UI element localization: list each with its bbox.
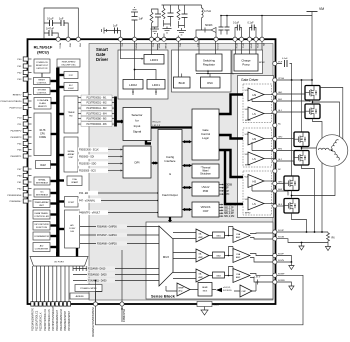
gate driver phase box 3 <box>243 171 272 215</box>
svg-text:BPH2: BPH2 <box>245 213 251 215</box>
wire VM pin stub <box>261 16 263 40</box>
pin (left) <box>23 193 28 197</box>
block A/D converter 12bit <box>65 210 80 248</box>
wire pin PGND stub <box>163 34 165 40</box>
block MCU peripheral KEY RETURN <box>33 222 50 231</box>
RC filter cluster 1 <box>164 5 171 29</box>
svg-text:P50/SI00 - SDI: P50/SI00 - SDI <box>79 157 94 159</box>
charge pump flying cap 2 <box>250 28 257 40</box>
svg-text:DATA TRANS.: DATA TRANS. <box>35 212 49 215</box>
block MCU peripheral I2C <box>34 189 50 197</box>
svg-text:1uF: 1uF <box>113 24 118 28</box>
pin (left) <box>23 173 28 177</box>
svg-text:CSA: CSA <box>236 273 241 276</box>
wire bus stub <box>51 163 58 165</box>
block regulator container <box>172 50 232 92</box>
wire LS out to pin <box>264 113 275 115</box>
wire bus stub <box>51 133 58 135</box>
block charge pump container <box>232 50 263 74</box>
svg-text:LS: LS <box>253 157 256 161</box>
motor M1 <box>316 135 348 167</box>
svg-text:CPCA: CPCA <box>278 77 284 80</box>
capacitor C2 <box>61 20 64 26</box>
svg-text:AMP: AMP <box>236 256 241 259</box>
pin (top) <box>149 37 153 41</box>
wire bus stub <box>58 86 64 88</box>
block MCU peripheral SERIAL <box>34 177 50 185</box>
svg-text:0.47uF: 0.47uF <box>46 27 54 31</box>
svg-text:CONV/: CONV/ <box>69 228 76 230</box>
block RAM <box>36 161 51 169</box>
svg-text:P23/ANI10 - DA20: P23/ANI10 - DA20 <box>88 274 107 277</box>
pin (top) <box>66 37 70 41</box>
svg-text:0.1uF: 0.1uF <box>282 58 288 60</box>
svg-text:P52/SS00 - SCS: P52/SS00 - SCS <box>79 171 96 173</box>
wire LDO outputs <box>133 89 156 95</box>
svg-text:&: & <box>169 172 171 176</box>
sense output amp 3 <box>233 269 250 283</box>
pin (bottom) <box>43 302 46 306</box>
pin (top) <box>260 37 264 41</box>
svg-text:FLASH: FLASH <box>39 102 46 105</box>
pin (left) <box>23 105 28 109</box>
svg-text:HIGH-SPEED: HIGH-SPEED <box>62 62 76 64</box>
block gate control logic <box>192 109 219 160</box>
svg-text:Regulator: Regulator <box>203 63 215 67</box>
node PWM input row <box>81 106 112 111</box>
svg-text:VLX: VLX <box>196 43 198 47</box>
svg-text:AMP: AMP <box>236 236 241 239</box>
wire VCC RC cluster <box>152 9 159 39</box>
svg-text:PGND: PGND <box>164 43 166 49</box>
svg-text:SERIAL: SERIAL <box>38 179 46 182</box>
pin (left) <box>23 77 28 81</box>
wire bemf input <box>166 286 177 291</box>
pin (top) <box>254 37 258 41</box>
node GAIP row <box>96 224 127 228</box>
svg-text:1uF: 1uF <box>59 17 64 21</box>
svg-text:4.7uH: 4.7uH <box>204 9 211 13</box>
svg-text:TIMER: TIMER <box>68 112 75 114</box>
wire P22 vertical inside <box>121 250 123 302</box>
wire pin VCC to LDO3 <box>151 39 153 54</box>
node SPI row <box>78 161 108 166</box>
net VM rail 2 <box>221 15 312 17</box>
wire LS out to pin <box>264 203 275 205</box>
svg-text:UNIT: UNIT <box>69 157 74 159</box>
svg-text:P24/ANI11 - DA30: P24/ANI11 - DA30 <box>88 280 107 283</box>
svg-text:LDO2: LDO2 <box>129 83 137 87</box>
wire bus into decoder <box>56 252 59 257</box>
sense PGA amp 1 <box>196 229 209 242</box>
gain select arrow <box>216 288 222 292</box>
svg-text:BPH2: BPH2 <box>259 62 265 64</box>
svg-text:for: for <box>135 119 139 123</box>
svg-text:SYSTEM: SYSTEM <box>38 90 47 92</box>
pin P27/ANI4 (bottom) <box>93 302 97 306</box>
inductor L1 <box>201 5 203 8</box>
svg-text:RAM: RAM <box>40 164 45 167</box>
block reset control <box>34 78 51 85</box>
svg-text:INTERFACE: INTERFACE <box>36 181 49 184</box>
pin (bottom) <box>39 302 42 306</box>
node PWM input row <box>81 111 112 116</box>
svg-text:P26/ANI6 - GAIP0U: P26/ANI6 - GAIP0U <box>97 226 117 229</box>
node SPI row <box>78 154 108 159</box>
pin (left) <box>23 70 28 74</box>
svg-text:P35/KR5/SNS: P35/KR5/SNS <box>7 195 21 197</box>
wire pin VCL to ground <box>104 31 121 40</box>
resistor R2 <box>162 8 165 19</box>
svg-text:CORE: CORE <box>39 136 46 139</box>
block DPI <box>123 146 151 178</box>
wire decoder tick <box>72 266 74 271</box>
svg-text:P16/TRDIOB0 - IN5: P16/TRDIOB0 - IN5 <box>87 119 108 121</box>
svg-text:LDO3: LDO3 <box>150 58 158 62</box>
wire pin VDD50 to LDO2/LDO1 <box>135 39 157 79</box>
pin (bottom) <box>63 302 66 306</box>
block MCU peripheral DATA TRANS. <box>33 210 50 219</box>
transistor Q2 <box>305 104 320 119</box>
svg-text:PGA: PGA <box>72 178 77 181</box>
wire VCP cap <box>277 64 292 81</box>
node DA row <box>87 278 115 282</box>
pin (right) <box>273 273 277 277</box>
svg-text:3/4 VDD5: 3/4 VDD5 <box>223 290 233 292</box>
svg-text:ON-CHIP OSC: ON-CHIP OSC <box>61 65 76 67</box>
pin (top) <box>155 37 159 41</box>
svg-text:0.1uF: 0.1uF <box>233 22 240 25</box>
svg-text:VDD50: VDD50 <box>135 43 137 50</box>
net OCP output label <box>219 206 222 208</box>
wire phase A alt <box>320 88 343 142</box>
pin (bottom) <box>59 302 62 306</box>
package outline RAJ306000 <box>28 39 276 304</box>
svg-text:P14/TRDIOA1 - IN3: P14/TRDIOA1 - IN3 <box>87 107 108 110</box>
wire bus stub <box>58 200 64 202</box>
wire GL1 to Q2 gate <box>277 111 305 113</box>
wire Q6 source down <box>292 213 307 232</box>
pin (right) <box>273 159 277 163</box>
block serial array unit <box>64 137 78 172</box>
svg-text:AMP: AMP <box>236 276 241 279</box>
wire pin VCL to LDO3 <box>121 39 142 59</box>
wire GH3 to Q5 gate <box>277 183 284 185</box>
wire port line <box>68 266 70 302</box>
wire Q2 source down <box>313 119 323 233</box>
node GAIP row <box>96 241 127 245</box>
svg-text:PGAVREF0: PGAVREF0 <box>122 309 125 323</box>
wire charge pump pins <box>236 39 263 54</box>
gain resistor box 3 <box>213 272 225 278</box>
pin (bottom) <box>51 302 54 306</box>
svg-text:BEMF: BEMF <box>202 287 208 289</box>
svg-text:Fault Output: Fault Output <box>162 193 178 197</box>
wire SH return <box>252 142 275 151</box>
svg-text:CP1H: CP1H <box>235 43 237 49</box>
svg-text:LOGIC: LOGIC <box>68 88 75 90</box>
pin (bottom) <box>67 302 70 306</box>
svg-text:POWER-ON: POWER-ON <box>36 62 48 64</box>
pin (right) <box>273 99 277 103</box>
svg-text:Pump: Pump <box>242 63 250 67</box>
net OCP output label <box>219 204 222 206</box>
pin (top) <box>239 37 243 41</box>
wire selector aux <box>146 141 151 144</box>
resistor R1 <box>150 12 153 27</box>
wire POR to reset control <box>41 73 43 77</box>
svg-text:Logic: Logic <box>202 136 209 140</box>
svg-text:CP2L: CP2L <box>256 43 258 49</box>
ground <box>177 31 186 35</box>
node SPI row <box>78 168 108 173</box>
pin (right) <box>273 169 277 173</box>
pin (bottom) <box>55 302 58 306</box>
ground <box>102 28 107 34</box>
pin (left) <box>23 199 28 203</box>
pin (right) <box>273 260 277 264</box>
svg-text:A/D: A/D <box>70 224 74 227</box>
wire config bidir arrow <box>184 187 190 189</box>
pin (left) <box>23 92 28 96</box>
driver HS amp 3 <box>248 175 264 188</box>
pin (right) <box>273 230 277 234</box>
ground (arrow style) <box>325 243 331 251</box>
ground <box>131 8 138 12</box>
block thermal warn shutdown <box>192 164 219 178</box>
svg-text:NC: NC <box>278 169 282 171</box>
pin (right) <box>273 148 277 152</box>
wire bus stub <box>51 235 58 237</box>
block LDO3 <box>144 55 164 65</box>
block DTC <box>64 72 78 79</box>
wire SH return <box>252 185 275 192</box>
wire SH2 to node <box>277 150 294 152</box>
svg-text:CMP: CMP <box>242 291 247 293</box>
svg-text:I2C: I2C <box>40 192 44 194</box>
svg-text:RESET: RESET <box>38 80 45 82</box>
svg-text:P20/ANI8 - GAIP2U: P20/ANI8 - GAIP2U <box>97 243 117 246</box>
pin (left) <box>23 141 28 145</box>
svg-text:Input: Input <box>134 124 141 128</box>
svg-text:REGC: REGC <box>58 43 60 49</box>
svg-text:VCC: VCC <box>152 43 154 48</box>
svg-text:Signal: Signal <box>133 130 142 134</box>
node DA row <box>87 272 115 276</box>
PWM bus vertical <box>114 97 117 127</box>
pin (right) <box>273 253 277 257</box>
wire A/D to decoder <box>76 248 78 257</box>
wire decoder tick <box>75 266 77 271</box>
svg-text:HS1,2,3: HS1,2,3 <box>153 122 162 124</box>
svg-text:P124/XT2/EXCLKS: P124/XT2/EXCLKS <box>48 309 51 331</box>
node control row <box>78 210 108 215</box>
pin (bottom) <box>47 302 50 306</box>
block high-speed on-chip oscillator <box>57 59 80 67</box>
svg-text:ELC: ELC <box>69 85 73 87</box>
BEMF comparator <box>240 285 252 297</box>
wire decoder tick <box>79 266 81 271</box>
svg-text:P12/TRDIOB1 - IN1: P12/TRDIOB1 - IN1 <box>87 97 108 99</box>
pin (top) <box>162 37 166 41</box>
wire cap row 2 <box>44 33 58 39</box>
svg-text:x1/4,1/2,: x1/4,1/2, <box>223 287 231 289</box>
wire drain feeds <box>292 80 312 176</box>
node PWM input row <box>81 95 112 100</box>
wire config to sense block (down arrow) <box>169 217 171 220</box>
wire HS out to pin <box>264 94 275 96</box>
capacitor C4 <box>115 28 118 34</box>
pin (left) <box>23 122 28 126</box>
transistor Q1 <box>305 86 320 101</box>
capacitor C5 <box>132 17 138 21</box>
resistor R6 shunt <box>327 232 330 243</box>
ground <box>163 29 172 33</box>
wire bus stub <box>51 80 58 82</box>
wire port line <box>44 266 46 302</box>
svg-text:OSC: OSC <box>207 81 213 85</box>
pin (left) <box>23 147 28 151</box>
svg-text:CSA: CSA <box>236 233 241 236</box>
transistor Q6 <box>284 199 299 214</box>
transistor Q3 <box>294 132 309 147</box>
wire VDD5 pin <box>157 33 159 39</box>
block comparator ref <box>75 285 102 292</box>
svg-text:P42/INTP2: P42/INTP2 <box>11 131 22 133</box>
supply VM symbol <box>307 11 318 13</box>
svg-text:Amp: Amp <box>179 290 183 293</box>
pin (left) <box>23 57 28 61</box>
wire HS out to pin <box>264 138 275 140</box>
svg-text:LS: LS <box>253 202 256 206</box>
svg-text:Driver: Driver <box>96 57 108 62</box>
svg-text:CSA: CSA <box>236 253 241 256</box>
svg-text:CP2H: CP2H <box>250 43 252 49</box>
wire SOUP rail to shunt <box>277 231 328 233</box>
svg-text:BEMF: BEMF <box>179 288 185 290</box>
svg-text:Selector: Selector <box>131 113 142 117</box>
wire config bidir arrow <box>184 165 190 167</box>
svg-text:DTC: DTC <box>69 75 74 77</box>
svg-text:CONVERTER: CONVERTER <box>35 248 49 250</box>
transistor Q5 <box>284 176 299 191</box>
svg-text:SB1,2,RP: SB1,2,RP <box>224 213 234 215</box>
wire bus stub <box>51 102 58 104</box>
svg-text:GB3: GB3 <box>216 276 221 278</box>
sense output amp 1 <box>233 229 250 243</box>
gain resistor box 2 <box>213 252 225 258</box>
block BGR <box>174 77 191 88</box>
svg-text:SD103: SD103 <box>205 24 213 27</box>
svg-text:P123/XT1/TOOLD1: P123/XT1/TOOLD1 <box>44 309 47 331</box>
svg-text:P122/X2/EXCLK: P122/X2/EXCLK <box>40 312 43 331</box>
wire port line <box>40 266 42 302</box>
svg-text:Gate Driver: Gate Driver <box>241 78 259 82</box>
svg-text:LDO1: LDO1 <box>152 83 160 87</box>
driver LS amp 3 <box>248 197 264 210</box>
svg-text:P46/INTP1 - xFAULT: P46/INTP1 - xFAULT <box>79 212 101 215</box>
wire SOUN kelvin <box>277 239 328 243</box>
svg-text:SERIAL: SERIAL <box>67 150 75 153</box>
svg-text:INTERFACE: INTERFACE <box>36 193 49 196</box>
svg-text:VDC: VDC <box>178 43 180 48</box>
MUX trapezoid <box>159 226 173 286</box>
driver LS amp 1 <box>248 107 264 120</box>
pin (left) <box>23 154 28 158</box>
svg-text:P22/ANI9 - DA10: P22/ANI9 - DA10 <box>88 268 106 271</box>
BEMF amp <box>177 283 190 296</box>
svg-text:P51/SO00 - SDO: P51/SO00 - SDO <box>79 164 97 166</box>
pin (left) <box>23 135 28 139</box>
svg-text:CONTROLLER: CONTROLLER <box>34 216 49 218</box>
svg-text:P43/INTP3: P43/INTP3 <box>11 137 22 139</box>
pin (top) <box>247 37 251 41</box>
svg-text:P43 - EN: P43 - EN <box>79 193 89 195</box>
wire HS out to pin <box>264 180 275 182</box>
capacitor C10 <box>226 16 228 35</box>
svg-text:SB1,2,3M: SB1,2,3M <box>224 210 234 212</box>
svg-text:Shutdown: Shutdown <box>200 173 211 176</box>
svg-text:POR: POR <box>203 189 209 193</box>
node PWM input row <box>81 100 112 105</box>
pin (bottom) <box>35 302 38 306</box>
wire config bidir arrow <box>184 209 190 211</box>
block MCU peripheral A/D <box>33 243 50 252</box>
svg-text:Sense Block: Sense Block <box>151 294 176 299</box>
svg-text:AMP: AMP <box>199 236 204 239</box>
svg-text:P36/SENS#: P36/SENS# <box>10 201 22 203</box>
block charge pump <box>234 54 258 71</box>
motor winding V <box>331 139 339 149</box>
svg-text:0.1uF: 0.1uF <box>47 17 54 21</box>
pin (right) <box>273 137 277 141</box>
wire Q4 source down <box>302 165 315 232</box>
capacitor C9 <box>220 16 222 35</box>
wire GL3 to Q6 gate <box>277 205 284 207</box>
wire SOWP feedback loop <box>96 275 304 325</box>
sense output amp 2 <box>233 249 250 263</box>
node PWM input row <box>81 122 112 127</box>
driver LS amp 2 <box>248 152 264 165</box>
wire bus stub <box>51 192 58 194</box>
resistor R3 <box>177 9 180 20</box>
pin (top) <box>118 37 122 41</box>
pin (left) <box>23 99 28 103</box>
svg-text:SB1,2,RM: SB1,2,RM <box>224 216 234 218</box>
wire PWM bus to selector <box>116 120 122 122</box>
svg-text:BPH0: BPH0 <box>245 120 251 122</box>
wire port line <box>64 266 66 302</box>
wire GCL to phase1 drivers <box>219 95 243 115</box>
node DA row <box>87 266 115 270</box>
svg-text:ARRAY: ARRAY <box>68 153 75 156</box>
net OCP output label <box>219 209 222 211</box>
wire port line <box>60 266 62 302</box>
ground (arrow style) <box>299 243 305 251</box>
gain resistor box 1 <box>213 232 225 238</box>
svg-text:A/D: A/D <box>40 245 44 248</box>
block PGA opamp <box>67 176 82 186</box>
svg-text:VCC15: VCC15 <box>216 43 218 50</box>
motor star point <box>331 149 333 151</box>
gate driver phase box 2 <box>243 128 272 167</box>
svg-text:BGR: BGR <box>179 81 185 85</box>
svg-text:CONTROL: CONTROL <box>37 83 48 85</box>
svg-text:P40/TOOL0: P40/TOOL0 <box>10 108 22 110</box>
block LDO2 <box>123 80 143 90</box>
wire pin P22 stub arrow <box>121 306 123 322</box>
block OSC <box>201 77 221 88</box>
